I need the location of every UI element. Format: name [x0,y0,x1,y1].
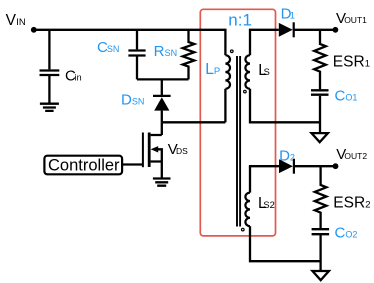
wire CO2 to ground [319,235,321,270]
svg-text:ESR: ESR [333,195,365,212]
wire VIN rail [34,29,226,31]
svg-text:S: S [264,67,270,77]
diode D2 [279,159,293,173]
svg-text:Controller: Controller [48,156,120,174]
polarity dot secondary [244,90,247,93]
inductor LP primary winding [225,55,230,89]
transistor Q1 body arrow [151,146,159,152]
wire LS2 bottom lead [250,226,321,261]
wire D1 to VOUT1 [294,29,336,31]
wire LS2 top to D2 [249,165,279,167]
svg-text:in: in [75,72,82,82]
svg-text:2: 2 [365,200,370,211]
ground triangle output1 [312,133,328,142]
resistor ESR2 [315,166,327,228]
svg-text:OUT2: OUT2 [344,151,367,161]
svg-text:IN: IN [16,17,26,28]
svg-text:C: C [335,87,346,104]
wire diode to drain rail [161,111,163,123]
svg-text:P: P [214,66,220,77]
wire snubber bottom [137,78,189,80]
wire primary top lead [224,29,226,56]
resistor RSN [183,30,195,80]
transformer core [237,56,240,227]
resistor ESR1 [314,30,326,89]
transistor Q1 source stub [151,162,162,178]
wire CO1 to ground [319,96,321,132]
node VOUT2 dot [333,163,339,169]
capacitor CSN [128,51,145,56]
svg-text:O2: O2 [345,230,357,240]
svg-text:SN: SN [165,48,178,58]
wire controller to gate [122,163,143,165]
svg-text:OUT1: OUT1 [344,15,367,25]
wire CSN branch [136,30,138,80]
capacitor CO2 [312,229,330,234]
svg-text:C: C [335,225,346,242]
transistor Q1 channel bar [148,133,151,168]
red dashed outline box around transformer [200,9,275,236]
inductor LS2 winding [245,193,250,227]
wire secondary top lead and to D1 [250,30,279,55]
transistor Q1 drain stub [151,122,162,135]
ground triangle output2 [313,271,329,280]
ground under source [153,179,171,186]
svg-text:V: V [6,12,17,29]
svg-text:n:1: n:1 [228,10,252,29]
wire primary bottom lead [224,89,226,123]
controller box [44,156,122,175]
capacitor CO1 [311,90,329,94]
diode DSN [153,95,171,97]
svg-text:SN: SN [132,96,145,106]
svg-text:ESR: ESR [333,53,365,70]
node VOUT1 dot [333,27,339,33]
svg-text:1: 1 [290,11,295,21]
transistor Q1 gate bar [142,133,144,168]
wire snubber to diode [161,79,163,95]
wire Cin branch [48,30,50,103]
wire D2 to VOUT2 [294,165,336,167]
svg-text:1: 1 [365,58,370,69]
wire LS2 top lead [249,166,251,192]
node VIN dot [31,27,37,33]
wire drain rail [162,121,226,123]
svg-text:R: R [154,43,165,60]
capacitor Cin [40,71,60,76]
svg-text:O1: O1 [345,92,357,102]
wire secondary bottom lead [250,89,320,123]
svg-text:SN: SN [107,44,120,54]
svg-text:DS: DS [176,146,188,156]
ground under Cin [40,104,59,111]
svg-text:D: D [121,91,132,108]
svg-text:S2: S2 [263,200,274,210]
inductor LS secondary winding [245,55,250,89]
diode D1 [279,23,293,37]
polarity dot LS2 [242,228,245,231]
polarity dot primary [231,50,234,53]
